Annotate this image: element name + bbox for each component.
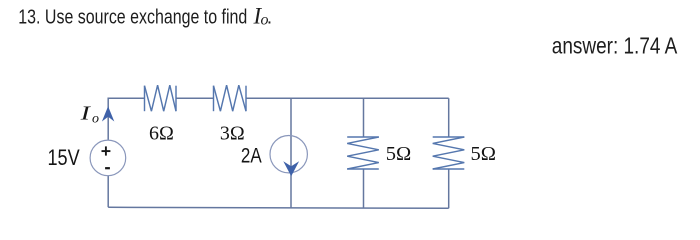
svg-text:6Ω: 6Ω	[149, 122, 174, 144]
svg-text:5Ω: 5Ω	[386, 143, 412, 165]
svg-text:3Ω: 3Ω	[220, 122, 245, 144]
svg-text:I: I	[79, 102, 92, 125]
svg-text:5Ω: 5Ω	[471, 143, 497, 165]
svg-text:.: .	[267, 7, 272, 29]
svg-text:o: o	[92, 112, 99, 127]
svg-text:answer: 1.74 A: answer: 1.74 A	[552, 33, 678, 59]
svg-text:13. Use source exchange to fin: 13. Use source exchange to find	[18, 6, 247, 28]
svg-text:15V: 15V	[48, 145, 80, 170]
svg-text:2A: 2A	[241, 144, 262, 168]
